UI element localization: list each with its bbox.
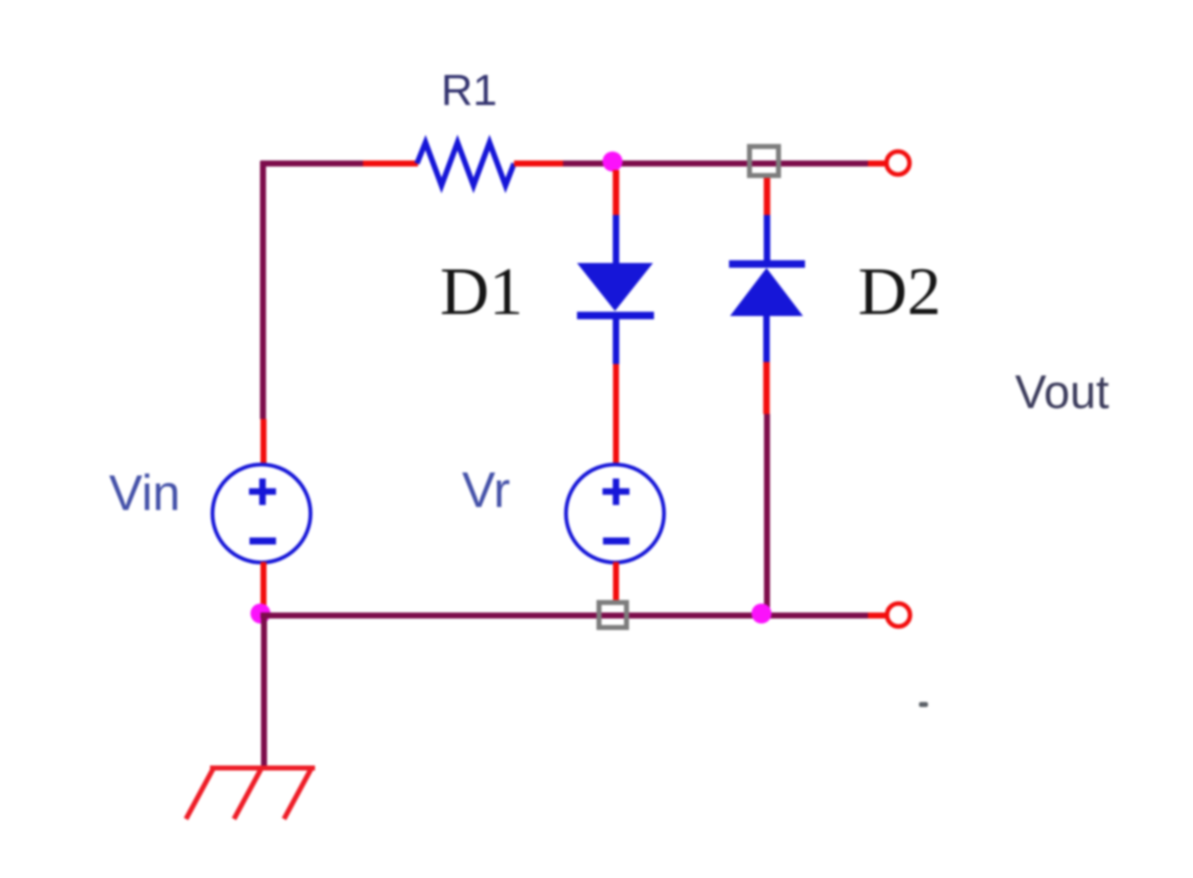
node: bottom-left junction dot (magenta) <box>251 604 271 624</box>
diode D1 cathode bar <box>577 312 654 320</box>
wire: top net, maroon from resistor to right terminal <box>563 161 868 167</box>
wire: resistor right pin (red) <box>514 161 563 167</box>
svg-text:Vout: Vout <box>1015 365 1109 418</box>
resistor R1 body (blue zigzag) <box>417 143 514 186</box>
diode D2 triangle (pointing up) <box>730 268 803 316</box>
wire: D2 bottom pin blue <box>763 316 770 362</box>
terminal: bottom-right output port (red open circle) <box>887 604 910 627</box>
net-tie square on top net at D2 (gray) <box>750 147 779 176</box>
ground symbol (red) <box>186 768 315 819</box>
wire: D2 to bottom net maroon <box>764 414 770 615</box>
wire: D2 bottom pin red <box>763 362 770 414</box>
wire: D1 top pin blue <box>613 215 620 266</box>
wire: Vr - pin red <box>613 562 619 601</box>
svg-text:D2: D2 <box>858 253 941 329</box>
svg-text:Vin: Vin <box>109 465 180 521</box>
terminal: top-right output port (red open circle) <box>887 152 910 175</box>
source Vin circle <box>213 465 311 563</box>
node: junction dot on top net at D1 branch (magenta) <box>603 152 623 172</box>
Vr minus sign <box>603 538 630 545</box>
wire: top net, maroon segment from left corner to resistor pin <box>261 161 364 167</box>
wire: D2 top pin blue <box>764 215 771 264</box>
wire: red stub to bottom-right terminal <box>868 613 886 619</box>
Vin plus sign <box>249 479 276 506</box>
diode D1 triangle (pointing down) <box>577 263 653 311</box>
node: bottom junction dot at D2 (magenta) <box>752 604 772 624</box>
wire: D1 bottom pin blue <box>613 317 620 364</box>
wire: red stub to top-right terminal <box>868 161 886 167</box>
wire: D1 top pin red from junction <box>613 170 620 215</box>
wire: D2 top pin red <box>764 178 771 215</box>
diode D2 cathode bar <box>729 260 805 268</box>
svg-text:D1: D1 <box>440 253 523 329</box>
wire: Vin - pin (red) <box>261 562 267 606</box>
Vin minus sign <box>250 538 277 545</box>
wire: Vin + pin (red) <box>261 419 267 466</box>
stray dark dash artifact <box>919 702 928 707</box>
wire: resistor left pin (red) <box>363 161 418 167</box>
source Vr circle <box>566 465 664 563</box>
wire: ground drop, maroon from junction down <box>261 614 267 769</box>
net-tie square on bottom net at Vr (gray) <box>599 603 627 628</box>
svg-text:Vr: Vr <box>462 462 510 518</box>
wire: left vertical net, maroon from top corner down <box>260 161 266 419</box>
wire: bottom net, maroon horizontal <box>261 613 869 619</box>
svg-text:R1: R1 <box>441 66 497 115</box>
wire: D1 to Vr red <box>613 364 619 466</box>
Vr plus sign <box>603 479 630 506</box>
